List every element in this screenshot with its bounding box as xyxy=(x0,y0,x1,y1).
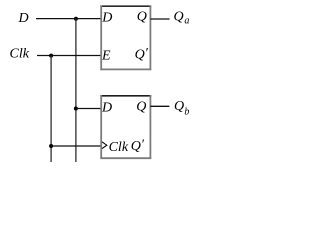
svg-text:D: D xyxy=(18,11,29,26)
junction dot D/vertical xyxy=(74,17,78,21)
svg-text:D: D xyxy=(101,100,112,115)
wire Q_a output xyxy=(150,18,169,20)
junction dot Clk/vertical xyxy=(49,54,53,58)
junction dot at U2 D branch xyxy=(74,107,78,111)
svg-text:D: D xyxy=(101,11,112,26)
wire Q_b output xyxy=(150,105,169,107)
svg-text:Clk: Clk xyxy=(109,140,129,155)
wire to U2 Clk input xyxy=(51,145,102,147)
U2 clock edge triangle xyxy=(102,142,107,149)
wire vertical bus from D xyxy=(75,19,77,162)
svg-text:Q′: Q′ xyxy=(131,137,145,154)
wire Clk input horizontal xyxy=(37,55,102,57)
svg-text:Q′: Q′ xyxy=(135,46,149,63)
wire vertical bus from Clk xyxy=(50,56,52,163)
svg-text:Q: Q xyxy=(136,99,146,114)
svg-text:Clk: Clk xyxy=(10,47,30,62)
svg-text:E: E xyxy=(101,48,111,63)
svg-text:Q: Q xyxy=(137,10,147,25)
D latch U1 body xyxy=(100,6,151,71)
D flip-flop U2 body xyxy=(100,95,151,159)
junction dot at U2 Clk branch xyxy=(49,144,53,148)
wire D input horizontal xyxy=(36,18,102,20)
wire to U2 D input xyxy=(76,108,102,110)
